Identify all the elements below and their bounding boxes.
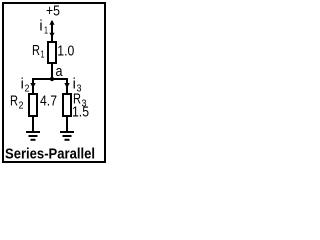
ground symbol (right) <box>60 132 74 140</box>
svg-text:i: i <box>73 77 76 93</box>
current arrow i2 (down) <box>30 83 35 88</box>
junction dot at node a <box>50 77 54 81</box>
wire from +5 down to R1 <box>51 21 53 42</box>
resistor R2 <box>29 94 37 116</box>
svg-text:1: 1 <box>41 50 45 61</box>
wire R2 to ground <box>32 116 34 132</box>
svg-text:a: a <box>56 64 64 80</box>
svg-text:2: 2 <box>25 84 30 95</box>
power supply arrow (points up to +5) <box>49 20 54 25</box>
horizontal node wire <box>32 78 68 80</box>
resistor R1 <box>48 42 56 63</box>
resistor R3 <box>63 94 71 116</box>
svg-text:i: i <box>39 19 42 35</box>
current arrow i3 (down) <box>64 83 69 88</box>
svg-text:2: 2 <box>19 101 24 112</box>
current arrow i1 (down) <box>49 33 54 38</box>
svg-text:Series-Parallel: Series-Parallel <box>5 147 95 163</box>
svg-text:R: R <box>10 94 18 110</box>
svg-text:4.7: 4.7 <box>40 94 57 110</box>
svg-text:+5: +5 <box>46 4 60 20</box>
svg-text:1.5: 1.5 <box>72 105 89 121</box>
svg-text:i: i <box>21 77 24 93</box>
ground symbol (left) <box>26 132 40 140</box>
wire R3 to ground <box>66 116 68 132</box>
wire R1 bottom to node a <box>51 63 53 79</box>
svg-text:1: 1 <box>44 26 48 37</box>
wire node to R2 <box>32 78 34 94</box>
svg-text:1.0: 1.0 <box>57 44 74 60</box>
svg-text:R: R <box>32 43 40 59</box>
wire node to R3 <box>66 78 68 94</box>
